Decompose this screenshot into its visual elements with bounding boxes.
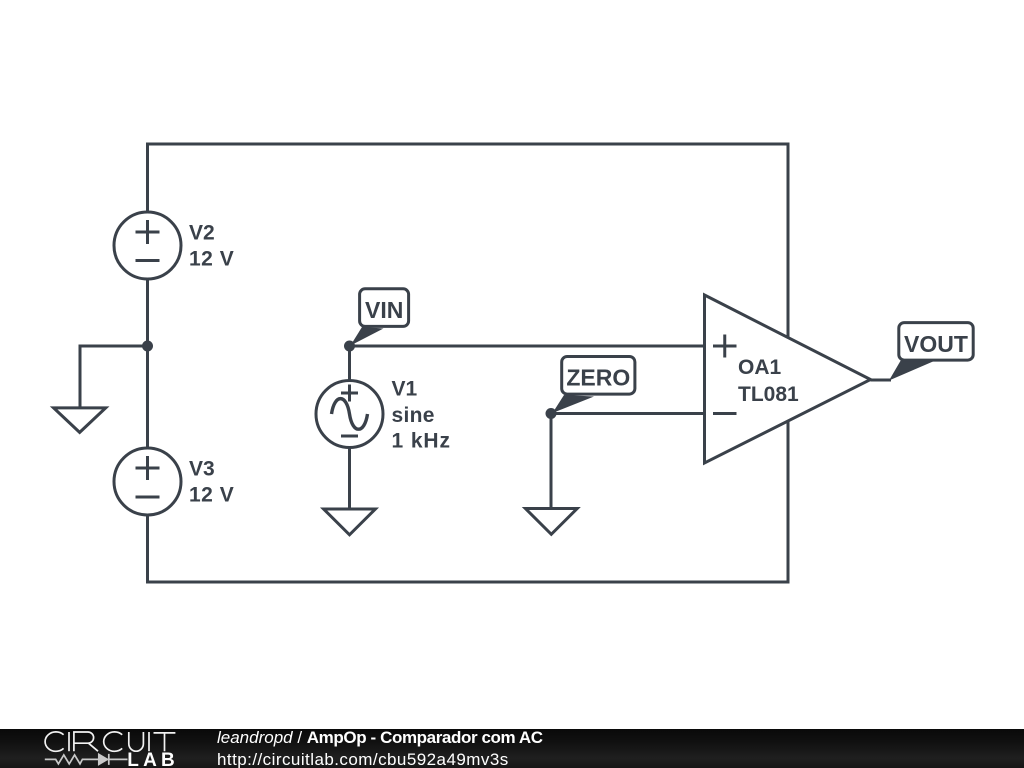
- wire left rail upper (to V2): [146, 143, 149, 213]
- wire bottom rail: [146, 581, 790, 584]
- flag VOUT: [889, 323, 973, 381]
- wire VIN node down to V1: [348, 346, 351, 381]
- voltage source V2: [114, 212, 181, 279]
- wire op-amp output stub: [871, 379, 892, 382]
- logo word CIRCUIT: [45, 732, 175, 751]
- svg-text:sine: sine: [392, 404, 435, 427]
- svg-text:V2: V2: [189, 222, 215, 245]
- logo resistor and diode doodle: [45, 754, 128, 765]
- svg-text:TL081: TL081: [738, 383, 799, 406]
- svg-text:LAB: LAB: [127, 750, 179, 768]
- wire ZERO node down to ground: [550, 414, 553, 511]
- CircuitLab logo: [0, 729, 200, 768]
- ground under V1: [324, 509, 376, 535]
- svg-text:VOUT: VOUT: [904, 331, 968, 357]
- svg-text:V1: V1: [392, 378, 418, 401]
- svg-text:VIN: VIN: [365, 297, 403, 323]
- op-amp + input symbol: [713, 335, 737, 358]
- ground under ZERO: [525, 509, 577, 535]
- wire V2 bottom to V3 top through node: [146, 279, 149, 448]
- footer bar: [0, 729, 1024, 768]
- node VIN with dot: [344, 341, 355, 352]
- voltage source V3: [114, 448, 181, 515]
- flag VIN: [351, 289, 409, 346]
- wire V1 bottom to ground: [348, 447, 351, 511]
- svg-text:1 kHz: 1 kHz: [392, 430, 451, 453]
- credit line 1: [217, 728, 543, 748]
- svg-text:V3: V3: [189, 458, 215, 481]
- wire ground branch left: [80, 346, 149, 409]
- wire left rail lower (V3 to bottom): [146, 515, 149, 584]
- svg-text:OA1: OA1: [738, 356, 782, 379]
- svg-text:ZERO: ZERO: [566, 365, 630, 391]
- node junction left: [142, 341, 153, 352]
- op-amp OA1: [705, 295, 871, 463]
- svg-text:12 V: 12 V: [189, 484, 234, 507]
- ground left: [54, 408, 106, 433]
- credit line 2: [217, 750, 509, 768]
- node ZERO with dot: [546, 408, 557, 419]
- voltage source V1 (sine): [316, 381, 383, 448]
- wire top rail: [146, 143, 790, 146]
- wire ZERO to op-amp - input: [551, 412, 705, 415]
- svg-text:12 V: 12 V: [189, 248, 234, 271]
- wire right rail: [787, 143, 790, 584]
- flag ZERO: [553, 357, 635, 414]
- op-amp - input symbol: [713, 412, 737, 415]
- wire VIN to op-amp + input: [350, 345, 705, 348]
